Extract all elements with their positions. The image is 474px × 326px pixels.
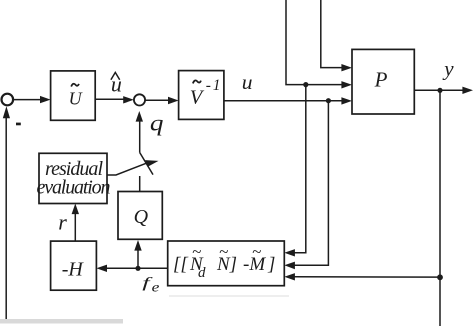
wire NM to -H (signal fe) (96, 265, 167, 272)
svg-text:U: U (69, 89, 83, 109)
junction dot on fe line (135, 266, 140, 271)
wire top input 2 (from top edge into P) (321, 0, 352, 71)
label r (58, 210, 67, 235)
wire U to junction2 (95, 96, 134, 103)
svg-text:-H: -H (62, 258, 85, 280)
block Q (118, 192, 162, 240)
wire V to P (signal u) (224, 97, 352, 104)
wire fe up into Q (134, 240, 141, 268)
junction dot bottom right (437, 274, 443, 280)
svg-text:]: ] (267, 254, 275, 275)
svg-text:Q: Q (134, 206, 149, 228)
junction dot on u line (326, 98, 331, 103)
block P (352, 49, 414, 114)
svg-text:evaluation: evaluation (37, 177, 111, 199)
svg-text:~: ~ (192, 242, 201, 261)
wire continuing to bottom edge (439, 277, 441, 326)
wire P output y (414, 87, 473, 94)
switch arm with arrow (107, 160, 159, 175)
shadow line under NM block (169, 295, 289, 297)
block U~ (51, 71, 96, 120)
svg-text:u: u (242, 70, 253, 94)
label f e (142, 275, 159, 295)
svg-text:-1: -1 (206, 77, 223, 94)
label q (150, 111, 164, 136)
svg-text:~: ~ (252, 242, 261, 261)
wire junction1 to U (14, 96, 51, 103)
switch contact stub (140, 153, 153, 175)
svg-text:~: ~ (219, 242, 228, 261)
wire feedback left side into junction1 (3, 106, 10, 320)
svg-text:y: y (442, 57, 454, 81)
junction dot on y line (437, 88, 442, 93)
scan artifact gray band bottom left (0, 319, 123, 324)
wire y into NM block (bottom arrow) (284, 273, 440, 280)
label u (242, 70, 253, 94)
wire junction2 to V (145, 97, 178, 104)
block V~ inverse (179, 71, 224, 120)
label minus (16, 123, 21, 126)
svg-text:r: r (58, 210, 67, 235)
wire top input 1 (from top edge into P) (286, 0, 352, 89)
svg-text:[[: [[ (173, 254, 189, 275)
wire input1-line down into NM block (top arrow) (284, 85, 306, 257)
wire y feedback down right side (439, 90, 441, 277)
wire Q top stub (139, 176, 141, 191)
svg-text:d: d (198, 265, 206, 281)
block residual evaluation (37, 153, 111, 203)
junction dot on top input 1 (303, 82, 308, 87)
wire -H to residual evaluation (signal r) (72, 204, 79, 242)
label y (442, 57, 454, 81)
svg-text:P: P (374, 67, 388, 91)
wire u-line down into NM block (middle arrow) (284, 101, 328, 270)
wire q up into junction2 (136, 111, 143, 153)
label u-hat (111, 71, 122, 96)
svg-text:e: e (152, 280, 160, 295)
summing junction 2 (134, 94, 145, 105)
block -H (51, 241, 97, 290)
summing junction 1 (2, 94, 14, 106)
block NM: [[N~d N~] -M~] (168, 241, 285, 286)
svg-text:q: q (150, 111, 164, 136)
